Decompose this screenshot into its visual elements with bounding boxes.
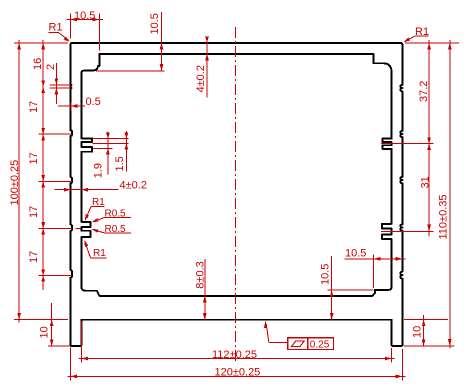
arrow bottom 110: [448, 339, 452, 346]
bowtie chain tick 1: [41, 81, 45, 87]
svg-text:0.25: 0.25: [310, 339, 330, 350]
arrow wall 4 left: [64, 188, 71, 192]
arrow left 10 top: [50, 320, 54, 327]
dimension left 10 dim line: [51, 303, 53, 346]
svg-text:16: 16: [32, 58, 44, 70]
arrow 120 left: [70, 375, 77, 379]
extension line ledge: [328, 289, 374, 291]
arrow step v bottom: [330, 313, 334, 320]
dimension 4±0.2 wall dim line: [55, 189, 119, 191]
svg-text:17: 17: [28, 152, 40, 164]
svg-text:10.5: 10.5: [345, 248, 366, 260]
part outline (outer boundary of extrusion profile): [70, 43, 402, 346]
arrow right of top 10.5: [93, 18, 100, 22]
dimension 1.5 dim line: [125, 131, 127, 171]
svg-text:17: 17: [28, 206, 40, 218]
extension line left at plate bottom: [14, 319, 68, 321]
extension line top-right at y=42.8: [405, 42, 459, 44]
extension line right fin gap 1: [381, 143, 434, 145]
extension line 112 right: [391, 348, 393, 363]
arrow top chain: [41, 43, 45, 50]
svg-text:100±0.25: 100±0.25: [9, 160, 21, 206]
extension line chain tick 181: [39, 180, 73, 182]
leader R1 upper fin: [91, 206, 105, 208]
arrow step h left: [374, 257, 381, 261]
dimension 110±0.35 dim line: [449, 40, 451, 349]
leader R0.5 lower: [104, 232, 131, 234]
svg-text:31: 31: [420, 176, 432, 188]
svg-text:10: 10: [39, 326, 51, 338]
svg-text:R0.5: R0.5: [105, 208, 127, 219]
extension line fin low: [93, 148, 113, 150]
arrow bottom right 10: [422, 339, 426, 346]
part inner cavity outline: [81, 54, 391, 296]
arrow top 4±0.2: [205, 36, 209, 43]
flatness frame box value: [308, 338, 334, 350]
arrow R0.5 upper: [92, 218, 99, 222]
dimension 120±0.25 dim line: [68, 375, 406, 377]
leader R1 top-left: [49, 31, 59, 33]
bowtie at 143.6: [427, 137, 431, 143]
extension line right at plate bottom: [404, 319, 448, 321]
dimension 4±0.2 flange dim line: [206, 39, 208, 98]
arrow 112 left: [81, 357, 88, 361]
extension line score bottom: [50, 87, 72, 89]
svg-text:110±0.35: 110±0.35: [437, 195, 449, 240]
svg-text:8±0.3: 8±0.3: [194, 261, 206, 288]
svg-text:R1: R1: [415, 26, 429, 38]
arrow 112 right: [385, 357, 392, 361]
svg-text:R1: R1: [49, 22, 63, 34]
extension line 120 right: [402, 349, 404, 381]
dimension 8±0.3 dim line: [204, 259, 206, 320]
arrow 2 lower: [55, 88, 59, 95]
extension line 112 left: [80, 322, 82, 363]
extension line fin top: [93, 138, 129, 140]
svg-text:0.5: 0.5: [86, 96, 101, 108]
dimension 10.5 top dim line: [67, 19, 104, 21]
flatness parallelogram symbol: [292, 341, 305, 347]
arrow top right 10: [422, 320, 426, 327]
extension line for 10.5 step: [96, 70, 165, 72]
flatness frame box symbol: [288, 338, 308, 350]
svg-text:1.5: 1.5: [114, 156, 126, 171]
arrow 120 right: [396, 375, 403, 379]
arrow top 110: [448, 43, 452, 50]
leader flatness: [264, 320, 267, 328]
extension line chain tick 275: [39, 275, 73, 277]
svg-text:17: 17: [28, 101, 40, 113]
arrow R1 lower fin: [84, 240, 88, 247]
dimension 10.5 (depth of step) dim line: [161, 12, 163, 71]
extension line score top: [50, 84, 72, 86]
extension line right fin gap 2: [381, 230, 434, 232]
svg-text:R1: R1: [92, 197, 105, 208]
extension line left foot bottom: [48, 345, 70, 347]
dimension right 10 dim line: [423, 315, 425, 346]
arrow 8 bottom: [203, 313, 207, 320]
dimension 1.9 dim line: [107, 132, 109, 175]
dimension 112±0.25 dim line: [79, 358, 395, 360]
arrow bottom 31: [427, 225, 431, 232]
dimension left chain line: [42, 40, 44, 290]
arrow step v top: [330, 290, 334, 297]
extension line right foot bottom: [404, 345, 455, 347]
arrow bottom 100: [17, 313, 21, 320]
svg-text:10.5: 10.5: [74, 10, 95, 22]
vertical centerline (dash-dot): [235, 27, 237, 361]
svg-text:17: 17: [28, 251, 40, 263]
arrow 2 upper: [55, 78, 59, 85]
dimension step 10.5 h dim line: [345, 258, 406, 260]
leader R1 top-right: [415, 35, 429, 37]
bowtie chain tick 4: [41, 222, 45, 228]
arrow 0.5: [71, 104, 78, 108]
dimension step 10.5 v dim line: [331, 256, 333, 320]
arrow 8 top: [203, 296, 207, 303]
extension line chain tick 228: [39, 227, 72, 229]
svg-text:120±0.25: 120±0.25: [215, 367, 261, 379]
svg-text:R0.5: R0.5: [105, 224, 127, 235]
arrow step h right: [396, 257, 403, 261]
arrow top 100: [17, 43, 21, 50]
arrow R1 top-left: [64, 37, 70, 43]
svg-text:10: 10: [412, 326, 424, 338]
extension line fin mid: [93, 143, 129, 145]
arrow R0.5 lower: [92, 229, 99, 233]
arrow wall 4 right: [81, 188, 88, 192]
svg-text:2: 2: [45, 64, 57, 70]
arrow 1.9 lower: [106, 149, 110, 155]
arrow bottom of 10.5 depth: [160, 64, 164, 71]
bowtie chain tick 3: [41, 175, 45, 181]
bowtie chain tick 5: [41, 269, 45, 275]
bowtie chain tick 2: [41, 128, 45, 134]
extension line 120 left: [69, 348, 71, 381]
svg-text:4±0.2: 4±0.2: [195, 65, 207, 92]
arrow bottom 4±0.2: [205, 54, 209, 61]
arrow top 37.2: [427, 43, 431, 50]
svg-text:4±0.2: 4±0.2: [120, 179, 147, 191]
dimension 2 dim line: [55, 63, 57, 104]
svg-text:37.2: 37.2: [418, 81, 430, 102]
leader R0.5 upper: [104, 217, 131, 219]
svg-text:10.5: 10.5: [320, 264, 332, 285]
leader R1 lower fin: [91, 257, 107, 259]
arrow 1.5 upper: [125, 133, 129, 139]
dimension 100±0.25 dim line: [18, 40, 20, 323]
extension line step edge vertical: [373, 255, 375, 289]
arrow top of 10.5 depth: [160, 43, 164, 50]
dimension 37.2/31 chain line: [428, 40, 430, 237]
extension line left of top 10.5: [69, 14, 71, 39]
arrow 1.9 upper: [106, 133, 110, 139]
leader 0.5: [58, 105, 85, 107]
svg-text:R1: R1: [93, 248, 106, 259]
arrow left 10 bottom: [50, 339, 54, 346]
svg-text:10.5: 10.5: [149, 13, 161, 34]
arrow R1 upper fin: [85, 214, 89, 221]
svg-text:1.9: 1.9: [93, 163, 105, 178]
svg-text:112±0.25: 112±0.25: [212, 349, 257, 361]
arrow left of top 10.5: [70, 18, 77, 22]
arrow 1.5 lower: [125, 144, 129, 150]
extension line top-left at y=42.8: [14, 42, 68, 44]
arrow R1 top-right: [403, 37, 410, 42]
extension line right of top 10.5: [98, 14, 100, 51]
extension line chain tick 134: [39, 133, 73, 135]
